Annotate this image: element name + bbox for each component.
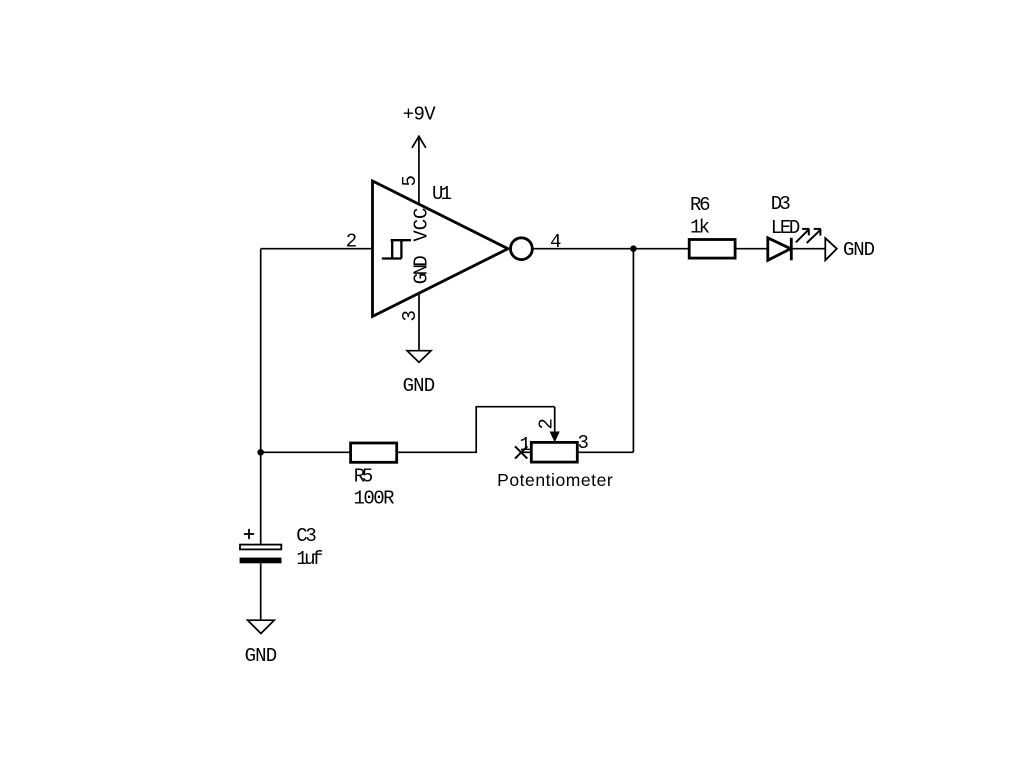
potentiometer wiper pin 2 arrow [554,407,556,433]
wire C3 to ground [260,563,262,620]
svg-text:LED: LED [771,217,801,239]
capacitor C3 plus sign [244,529,254,539]
svg-text:GND: GND [411,255,433,284]
wire left vertical [260,249,262,453]
ground symbol bottom [248,620,275,633]
U1 hysteresis symbol [382,240,411,258]
svg-text:D3: D3 [771,193,791,215]
svg-text:GND: GND [843,239,875,261]
wire right riser vertical [632,249,634,453]
wire pot pin3 to right riser [577,451,633,453]
capacitor C3 top plate [240,545,281,550]
LED D3 cathode bar [790,238,793,260]
LED emission arrow 2 [807,229,821,243]
LED D3 anode triangle [768,238,791,260]
wire R5 to potentiometer wiper [397,407,555,453]
resistor R6 [689,240,735,259]
LED emission arrow 1 [796,229,809,242]
svg-text:+9V: +9V [403,104,437,126]
svg-text:5: 5 [399,175,421,186]
svg-text:3: 3 [399,310,421,321]
svg-text:VCC: VCC [411,208,433,242]
svg-text:R5: R5 [354,465,374,487]
svg-text:4: 4 [550,231,561,253]
svg-text:C3: C3 [296,525,317,547]
junction node left [257,449,264,456]
svg-text:3: 3 [578,432,589,454]
svg-text:1k: 1k [690,217,710,239]
resistor R5 [351,443,397,462]
wire U1 output to R6 [532,248,689,250]
svg-text:R6: R6 [690,194,711,216]
U1 output inversion bubble [511,238,533,260]
svg-text:GND: GND [403,375,436,397]
potentiometer pin 1 stub [521,451,531,453]
wire R6 to LED [735,248,768,250]
wire LED to GND flag [791,248,825,250]
svg-text:Potentiometer: Potentiometer [497,470,613,490]
svg-text:GND: GND [245,645,278,667]
svg-text:100R: 100R [354,487,395,509]
svg-text:2: 2 [536,418,558,429]
ground symbol below U1 [407,351,431,363]
wire junction down to C3 [260,452,262,544]
U1 pin 3 line [418,293,420,351]
global label GND flag [825,238,837,260]
svg-text:1uf: 1uf [296,548,323,570]
no-connect cross on pin 1 [515,446,527,458]
wire pin2 horizontal [261,248,373,250]
potentiometer RV body [531,442,577,462]
op-amp U1 (schmitt-trigger inverter body) [373,181,509,316]
junction node output [630,245,637,252]
power symbol +9V arrow [412,136,426,204]
wire junction to R5 [261,451,351,453]
svg-text:U1: U1 [432,183,452,205]
capacitor C3 bottom plate [240,558,282,564]
